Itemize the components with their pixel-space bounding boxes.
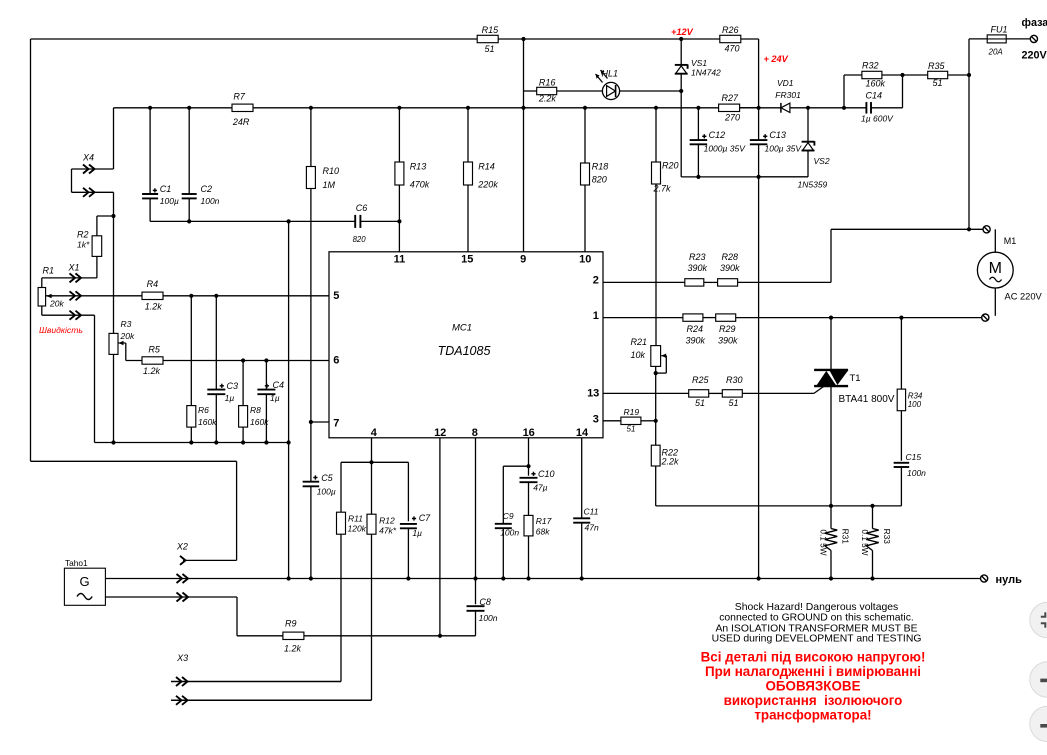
svg-text:68k: 68k [536,527,550,537]
wire X2 return bottom [31,460,237,462]
wire нуль rail [105,578,980,580]
svg-text:0.1 5W: 0.1 5W [818,529,828,555]
wire X4 jumper bracket [72,168,114,170]
resistor R22 [651,445,660,466]
svg-text:C3: C3 [227,381,239,391]
svg-text:C13: C13 [769,130,786,140]
pin 5 [328,295,330,297]
svg-text:160k: 160k [198,417,217,427]
svg-text:220k: 220k [477,180,498,190]
svg-text:MC1: MC1 [452,323,472,334]
svg-text:6: 6 [333,355,339,367]
svg-text:820: 820 [592,175,607,185]
wire C6 row y=221.4 [150,220,189,222]
svg-text:T1: T1 [850,373,861,384]
svg-text:C2: C2 [201,184,213,194]
svg-text:VS2: VS2 [814,156,830,166]
connector X1 [70,273,76,282]
svg-text:R35: R35 [928,61,946,71]
wire pin6 row [126,360,329,362]
capacitor C4 [265,361,267,390]
svg-text:12: 12 [434,427,446,439]
wire ground rail y=442.5 [95,442,289,444]
svg-text:820: 820 [353,235,367,244]
svg-text:390k: 390k [688,263,708,273]
resistor R10 [310,108,312,167]
wire R16 row [524,90,537,92]
potentiometer R1 [38,288,46,307]
svg-text:R27: R27 [722,93,740,103]
svg-text:Taho1: Taho1 [65,558,88,568]
svg-text:X2: X2 [176,542,188,552]
capacitor C3 [215,296,217,390]
svg-text:connected to GROUND on this sc: connected to GROUND on this schematic. [719,613,914,624]
svg-text:VD1: VD1 [777,78,794,88]
capacitor C1 [149,108,151,194]
svg-text:15: 15 [461,253,473,265]
potentiometer R21 [651,346,661,367]
wire pin12 column [439,438,441,636]
resistor R2 [92,236,102,257]
resistor R30 [722,390,742,397]
svg-text:X4: X4 [82,153,94,163]
svg-text:X3: X3 [176,653,188,663]
svg-text:R23: R23 [689,252,706,262]
svg-text:51: 51 [729,398,739,408]
svg-text:R5: R5 [148,345,160,355]
wire pin8 C8 column [475,438,477,604]
capacitor C15 [894,462,910,464]
svg-text:R3: R3 [121,319,132,329]
svg-text:C11: C11 [584,507,599,517]
resistor R35 [903,74,928,76]
op-amp IC MC1 TDA1085 body [329,252,603,438]
svg-text:використання ізолюючого: використання ізолюючого [724,693,903,708]
svg-text:C4: C4 [273,380,285,390]
resistor R23 [685,279,704,286]
motor M1 [977,252,1013,288]
svg-text:2.2k: 2.2k [538,94,557,104]
svg-text:11: 11 [394,253,406,265]
svg-text:1: 1 [593,310,599,322]
svg-text:2.7k: 2.7k [653,184,672,194]
svg-text:X1: X1 [68,263,80,273]
svg-text:2.2k: 2.2k [661,457,680,467]
svg-text:100µ: 100µ [160,196,179,206]
svg-text:Швидкість: Швидкість [39,325,83,335]
resistor R4 [142,292,163,299]
svg-text:R28: R28 [722,252,739,262]
wire C6 vert to taho rail [288,443,290,579]
svg-text:R29: R29 [719,324,736,334]
svg-text:BTA41 800V: BTA41 800V [839,394,895,405]
svg-text:390k: 390k [720,263,740,273]
wire +24V corner [758,39,760,108]
svg-text:16: 16 [523,427,535,439]
svg-text:100n: 100n [201,196,220,206]
wire R1 bottom [41,306,43,315]
zener VS1 [680,39,682,65]
wire R21 column [655,366,657,445]
svg-text:51: 51 [695,398,705,408]
svg-text:C15: C15 [906,452,922,462]
svg-text:1µ 600V: 1µ 600V [861,114,894,124]
svg-text:160k: 160k [866,79,886,89]
capacitor C11 [581,438,583,519]
resistor R3 pot [109,333,118,354]
svg-text:13: 13 [587,388,599,400]
svg-text:R11: R11 [348,514,363,524]
svg-text:1.2k: 1.2k [284,644,302,654]
svg-text:C12: C12 [709,130,726,140]
svg-text:R7: R7 [233,92,245,102]
svg-text:R32: R32 [862,61,879,71]
wire gate node row y=505.9 [656,505,902,507]
svg-text:270: 270 [724,113,740,123]
svg-text:100n: 100n [907,468,926,478]
svg-text:R18: R18 [592,162,609,172]
resistor R28 [718,279,738,286]
capacitor C6 [354,215,356,228]
svg-text:47n: 47n [585,523,599,533]
svg-text:R25: R25 [692,375,710,385]
capacitor C9 branch [503,465,528,467]
svg-text:R4: R4 [147,279,159,289]
svg-text:20A: 20A [988,48,1003,57]
svg-text:10: 10 [579,253,591,265]
wire taho bottom [105,596,237,598]
connector X1 pin2 wiper [70,291,76,300]
wire pin1 row / motor bottom [603,317,683,319]
svg-text:220V: 220V [1022,50,1047,62]
svg-text:470k: 470k [410,180,430,190]
wire top +12V rail y=39 [31,38,478,40]
svg-text:AC 220V: AC 220V [1005,292,1043,302]
svg-text:R19: R19 [624,407,640,417]
svg-text:Shock Hazard! Dangerous voltag: Shock Hazard! Dangerous voltages [735,602,898,613]
ui button fullscreen [1030,602,1047,637]
svg-text:100n: 100n [479,613,498,623]
svg-text:9: 9 [520,253,526,265]
connector taho arrows [177,574,183,583]
svg-text:10k: 10k [631,350,646,360]
wire VS1 anode down [680,91,682,177]
wire pin5 row [46,295,329,297]
svg-text:120k: 120k [348,524,367,534]
svg-text:C6: C6 [356,203,368,213]
resistor R14 [467,108,469,162]
terminal фаза [1030,35,1037,42]
svg-text:C1: C1 [160,184,172,194]
svg-text:100µ 35V: 100µ 35V [765,144,803,154]
svg-text:C14: C14 [866,91,883,101]
wire pin13 row [603,392,689,394]
resistor R34 [900,318,902,390]
resistor R9 [283,632,304,639]
svg-text:1µ: 1µ [225,393,235,403]
svg-text:R15: R15 [482,25,500,35]
svg-text:2: 2 [593,275,599,287]
svg-text:4: 4 [371,427,378,439]
wire pin7 stub [311,421,329,423]
resistor R27 [719,104,740,111]
ui button zoom out [1030,706,1047,741]
resistor R18 [584,108,586,163]
wire common down x=758.6 [758,177,760,579]
svg-text:C7: C7 [419,513,431,523]
svg-text:24R: 24R [232,117,250,127]
svg-text:51: 51 [627,425,636,434]
svg-text:R13: R13 [410,162,427,172]
svg-text:20k: 20k [49,299,64,309]
resistor R8 [242,361,244,406]
resistor R17 [524,515,533,536]
svg-text:R12: R12 [379,516,395,526]
generator Taho1 [64,568,105,605]
svg-text:R30: R30 [726,375,743,385]
junction dots [521,37,525,41]
svg-text:47µ: 47µ [533,482,547,492]
wire R11-C7 branch top [341,461,408,463]
LED HL1 [602,82,619,99]
svg-text:При налагодженні і вимірюванні: При налагодженні і вимірюванні [705,664,921,679]
capacitor C8 [467,605,485,607]
resistor R15 [477,35,498,42]
wire pin16 column [528,438,530,476]
svg-text:R21: R21 [631,337,648,347]
svg-text:R26: R26 [722,25,739,35]
svg-text:1k*: 1k* [77,240,90,250]
svg-text:HL1: HL1 [602,69,619,79]
wire left border loop [30,39,32,461]
resistor R12 [371,462,373,514]
diode VD1 [740,107,781,109]
svg-text:M: M [989,260,1002,277]
resistor R7 [232,104,253,111]
wire pin2 row [603,281,685,283]
svg-text:1N4742: 1N4742 [691,68,721,78]
ui button zoom in [1030,662,1047,697]
svg-text:R31: R31 [841,529,851,545]
capacitor C10 [520,477,538,479]
svg-text:3: 3 [593,413,599,425]
wire main rail y=107.8 [114,107,233,109]
resistor R20 [655,108,657,162]
wire R3 wiper to pin6 row [125,343,127,361]
terminal motor top [983,226,990,233]
resistor R5 [142,357,163,364]
svg-text:R9: R9 [285,619,297,629]
svg-text:390k: 390k [718,336,738,346]
resistor R29 [716,314,736,321]
resistor R31 [830,506,832,529]
resistor R24 [683,314,703,321]
svg-text:VS1: VS1 [691,58,707,68]
wire R2 to X1 [96,257,98,278]
svg-text:R17: R17 [536,516,552,526]
svg-text:1M: 1M [323,180,336,190]
wire taho top [104,578,106,580]
svg-text:1µ: 1µ [412,528,422,538]
svg-text:0.1 5W: 0.1 5W [860,529,870,555]
svg-text:+12V: +12V [671,27,694,37]
svg-text:51: 51 [485,44,495,54]
svg-text:R20: R20 [662,161,679,171]
svg-text:G: G [79,574,89,589]
wire left column x=113.5 [113,108,115,169]
svg-text:трансформатора!: трансформатора! [754,708,871,723]
svg-text:1000µ 35V: 1000µ 35V [704,144,747,154]
svg-text:1.2k: 1.2k [145,302,163,312]
svg-text:R33: R33 [882,529,892,545]
terminal motor bottom [982,314,989,321]
triac T1 [830,318,832,370]
capacitor C2 [188,108,190,194]
wire pin9 column x=523.5 [523,39,525,252]
resistor R6 [190,296,192,406]
svg-text:C8: C8 [479,597,491,607]
resistor R19 [603,420,621,422]
svg-text:R16: R16 [539,78,556,88]
resistor R11 [337,512,346,534]
capacitor C12 [697,108,699,140]
svg-text:R8: R8 [250,405,261,415]
svg-text:470: 470 [725,44,740,54]
svg-text:47k*: 47k* [379,526,397,536]
svg-text:TDA1085: TDA1085 [438,344,491,358]
svg-text:+ 24V: + 24V [764,54,789,64]
svg-text:5: 5 [333,290,339,302]
svg-text:USED during DEVELOPMENT and TE: USED during DEVELOPMENT and TESTING [712,634,922,645]
svg-text:R14: R14 [478,162,495,172]
wire motor top [831,228,983,230]
svg-text:Всі деталі під високою напруго: Всі деталі під високою напругою! [701,650,926,665]
wire cap bottom rail y=176.9 [698,176,808,178]
svg-text:14: 14 [576,427,589,439]
svg-text:7: 7 [333,417,339,429]
svg-text:ОБОВЯЗКОВЕ: ОБОВЯЗКОВЕ [766,679,861,694]
resistor R16 [537,87,557,94]
resistor R26 [720,35,741,42]
svg-text:390k: 390k [686,336,706,346]
svg-text:M1: M1 [1004,236,1017,246]
svg-text:R2: R2 [77,230,89,240]
zener VS2 [807,108,809,142]
svg-text:FU1: FU1 [991,25,1008,35]
svg-text:1.2k: 1.2k [143,366,161,376]
svg-text:1N5359: 1N5359 [798,180,828,190]
svg-text:51: 51 [933,78,943,88]
resistor R13 [398,108,400,162]
svg-text:C9: C9 [503,511,514,521]
fuse FU1 [969,38,987,40]
wire phase column x=969 [968,39,970,229]
svg-text:1µ: 1µ [270,393,280,403]
capacitor C7 [400,523,417,525]
capacitor C13 [758,108,760,140]
capacitor C5 [310,422,312,481]
svg-text:8: 8 [472,427,478,439]
connector X4 [83,165,89,174]
terminal нуль [981,575,988,582]
svg-text:нуль: нуль [996,574,1023,586]
svg-text:C10: C10 [538,469,555,479]
resistor R25 [689,390,709,397]
svg-text:R6: R6 [198,405,209,415]
connector X1 pin3 [70,311,76,320]
svg-text:C5: C5 [321,473,333,483]
wire R2 branch [97,215,114,217]
svg-text:R1: R1 [43,266,55,276]
svg-text:100: 100 [908,400,922,409]
svg-text:100n: 100n [500,528,519,538]
capacitor C14 [844,107,866,109]
svg-text:100µ: 100µ [317,487,336,497]
svg-text:фаза: фаза [1022,17,1047,29]
wire R9 row [237,635,283,637]
resistor R32 [843,75,845,108]
svg-text:FR301: FR301 [775,90,801,100]
svg-text:R24: R24 [687,324,704,334]
resistor R33 [872,506,874,529]
svg-text:20k: 20k [120,331,135,341]
svg-text:R10: R10 [323,166,340,176]
wire pin4 column [371,438,373,463]
